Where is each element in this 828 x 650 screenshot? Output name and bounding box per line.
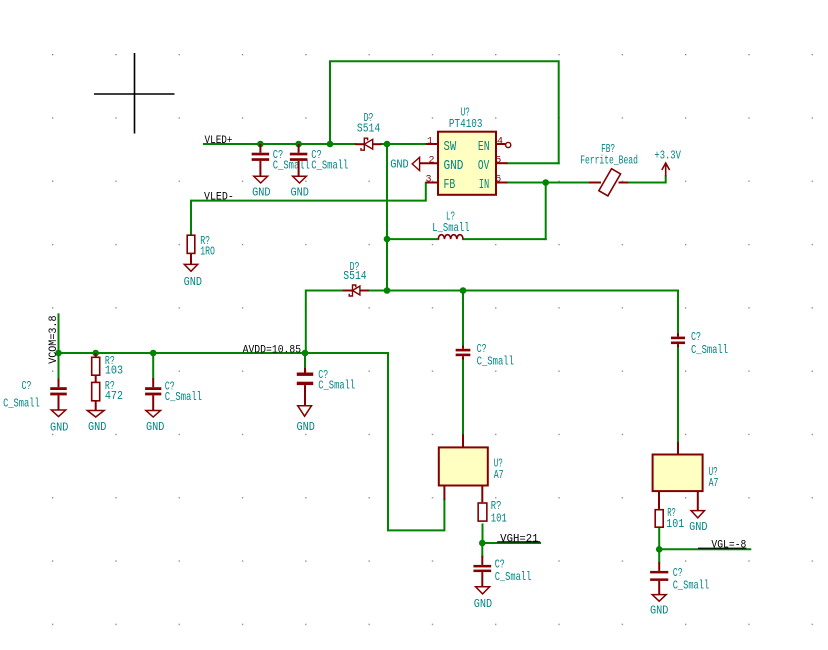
svg-text:6: 6: [495, 175, 501, 186]
svg-text:C?: C?: [495, 558, 505, 571]
capacitor C6 C_Small: [456, 346, 471, 360]
svg-text:GND: GND: [88, 420, 106, 434]
U2 bottom-right pin: [481, 486, 483, 503]
VGH label underline: [497, 541, 540, 543]
svg-text:C_Small: C_Small: [318, 380, 355, 393]
wire VGL net: [659, 548, 750, 550]
wire cap D drop: [152, 353, 154, 378]
ground for C2: [291, 176, 309, 199]
svg-text:SW: SW: [444, 139, 457, 155]
svg-text:GND: GND: [444, 158, 464, 174]
ground for C9: [650, 595, 668, 618]
svg-text:L_Small: L_Small: [432, 222, 469, 235]
wire inductor left: [387, 238, 438, 240]
transistor module U2 A7 body: [439, 447, 488, 485]
svg-text:A7: A7: [709, 477, 719, 490]
diode D2 S514: [343, 285, 369, 296]
op-amp U1 PT4103 body: [438, 132, 496, 195]
junction VCOM node: [55, 350, 62, 357]
svg-text:1RO: 1RO: [200, 246, 215, 259]
wire cap E drop: [304, 353, 306, 368]
junction VGL node: [656, 546, 663, 553]
ground for C4: [146, 411, 165, 435]
svg-text:C?: C?: [477, 343, 487, 356]
global label GND at U1 pin2: [390, 157, 419, 171]
wire VGH net: [482, 542, 540, 544]
wire AVDD cap branch: [462, 291, 464, 346]
svg-text:C_Small: C_Small: [477, 356, 514, 369]
svg-text:GND: GND: [390, 159, 409, 172]
wire cap C drop: [58, 353, 60, 379]
ground U3 right pin: [689, 511, 707, 534]
U3 bottom-left pin: [658, 491, 660, 509]
svg-text:AVDD=10.85: AVDD=10.85: [243, 344, 302, 356]
ground for C1: [252, 176, 270, 199]
svg-text:C_Small: C_Small: [165, 391, 202, 404]
U1 pin 4 EN with bubble: [496, 142, 511, 147]
svg-text:PT4103: PT4103: [449, 118, 483, 131]
svg-text:C?: C?: [673, 567, 683, 580]
junction VLED+ cap B: [295, 141, 302, 148]
U3 top pin: [677, 442, 679, 455]
wire ferrite to +3.3V: [628, 176, 665, 182]
wire SW node vertical: [386, 144, 388, 291]
svg-text:OV: OV: [478, 158, 490, 174]
svg-text:5: 5: [495, 156, 501, 167]
svg-text:VLED-: VLED-: [204, 192, 234, 204]
wire R101 right to VGL: [658, 527, 660, 549]
svg-text:4: 4: [497, 137, 503, 148]
U3 bottom-right pin: [697, 491, 699, 511]
VGL label underline: [698, 547, 746, 549]
junction IN node: [542, 179, 549, 186]
svg-text:GND: GND: [689, 520, 707, 534]
svg-text:VGL=-8: VGL=-8: [711, 540, 746, 552]
inductor L1 L_Small: [438, 235, 463, 239]
ground for C5: [297, 406, 315, 434]
wire diode D1 to pin SW: [381, 143, 425, 145]
wire OV pin to loop: [508, 162, 559, 164]
svg-text:C_Small: C_Small: [673, 580, 710, 593]
junction AVDD cap F: [460, 287, 467, 294]
svg-text:GND: GND: [184, 275, 202, 289]
svg-text:3: 3: [425, 175, 431, 186]
transistor module U3 A7 body: [653, 455, 703, 492]
capacitor C8 C_Small: [473, 556, 491, 587]
svg-text:R?: R?: [491, 500, 502, 513]
svg-text:C_Small: C_Small: [273, 159, 310, 172]
svg-text:GND: GND: [50, 420, 68, 434]
svg-text:EN: EN: [478, 139, 490, 155]
ground for R2 R3: [87, 411, 106, 435]
wire VGH cap drop: [481, 543, 483, 556]
svg-text:GND: GND: [146, 420, 164, 434]
wire VCOM/AVDD row: [59, 353, 445, 530]
junction R103: [92, 350, 99, 357]
svg-text:C?: C?: [22, 380, 32, 393]
junction SW diode D2: [384, 287, 391, 294]
svg-text:FB: FB: [444, 177, 456, 193]
capacitor C9 C_Small: [650, 562, 668, 594]
U1 pin 3 FB: [426, 182, 438, 184]
wire right branch down: [677, 291, 679, 334]
resistor R2 103: [92, 353, 100, 375]
svg-text:C_Small: C_Small: [311, 159, 348, 172]
wire IN node to inductor: [545, 183, 547, 240]
svg-text:GND: GND: [650, 603, 668, 617]
U1 pin names: [444, 139, 490, 193]
svg-text:101: 101: [666, 518, 684, 531]
power symbol +3.3V: [662, 163, 670, 176]
wire diode D2 left branch: [306, 291, 343, 354]
svg-text:C_Small: C_Small: [3, 397, 40, 410]
svg-text:GND: GND: [297, 420, 315, 434]
svg-text:C_Small: C_Small: [495, 571, 532, 584]
junction VLED+ cap A: [257, 141, 264, 148]
svg-text:GND: GND: [474, 597, 492, 611]
ferrite bead FB1: [589, 169, 628, 196]
svg-text:GND: GND: [291, 186, 309, 200]
svg-text:103: 103: [105, 365, 123, 378]
wire VCOM label stub: [58, 314, 60, 353]
crosshair origin marker: [94, 53, 175, 134]
wire cap G to U A7 right: [677, 347, 679, 442]
resistor R1 1RO: [187, 235, 195, 264]
svg-text:S514: S514: [343, 270, 366, 283]
capacitor C3 C_Small: [50, 379, 67, 411]
junction cap D: [150, 350, 157, 357]
wire VGL cap drop: [658, 549, 660, 562]
junction AVDD label: [302, 350, 309, 357]
resistor R4 101: [478, 503, 487, 521]
wire R101 left to VGH: [482, 525, 484, 544]
wire VLED+ net: [204, 143, 355, 145]
diode D1 S514: [355, 138, 382, 150]
capacitor C4 C_Small: [145, 378, 161, 410]
svg-text:1: 1: [427, 137, 433, 148]
svg-text:Ferrite_Bead: Ferrite_Bead: [580, 155, 638, 168]
capacitor C2 C_Small: [290, 144, 308, 176]
svg-text:IN: IN: [479, 177, 490, 193]
capacitor C5 C_Small: [297, 368, 314, 406]
svg-text:+3.3V: +3.3V: [654, 149, 681, 162]
U1 pin 1 SW: [426, 143, 438, 145]
svg-text:A7: A7: [494, 469, 504, 482]
U1 pin 6 IN: [496, 182, 508, 184]
junction VGH node: [479, 540, 486, 547]
resistor R5 101: [655, 510, 663, 528]
svg-text:GND: GND: [252, 186, 270, 200]
svg-text:VCOM=3.8: VCOM=3.8: [48, 316, 60, 364]
junction SW node: [384, 141, 391, 148]
svg-text:C_Small: C_Small: [691, 344, 728, 357]
wire VLED- net to FB pin: [191, 183, 426, 236]
U2 bottom-left pin: [443, 486, 445, 501]
svg-text:VGH=21: VGH=21: [500, 533, 538, 545]
svg-text:472: 472: [105, 390, 123, 403]
ground for R1: [184, 264, 202, 289]
resistor R3 472: [92, 375, 100, 410]
U2 top pin: [462, 434, 464, 447]
svg-text:S514: S514: [357, 123, 380, 136]
U1 pin 5 OV: [496, 162, 508, 164]
ground for C8: [474, 587, 492, 611]
wire cap F to U A7 left: [462, 360, 464, 435]
wire inductor right: [463, 238, 546, 240]
wire top feedback loop OV to VLED+: [330, 61, 559, 163]
wire IN pin to ferrite: [508, 182, 589, 184]
junction VLED+ loop: [327, 141, 334, 148]
junction inductor left: [384, 236, 391, 243]
capacitor C1 C_Small: [252, 144, 270, 176]
U1 pin 2 GND: [420, 162, 438, 164]
svg-text:2: 2: [428, 156, 434, 167]
capacitor C7 C_Small: [671, 333, 685, 347]
ground for C3: [50, 410, 68, 434]
svg-text:VLED+: VLED+: [205, 135, 233, 147]
wire AVDD output row: [369, 290, 678, 292]
svg-text:C?: C?: [691, 331, 701, 344]
U1 pin numbers: [425, 137, 503, 186]
svg-text:101: 101: [491, 513, 507, 526]
